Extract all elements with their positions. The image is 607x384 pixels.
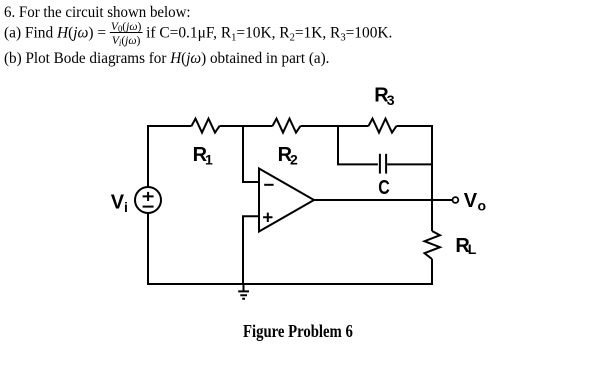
- svg-text:1: 1: [205, 152, 213, 168]
- op-amp plus sign: [263, 213, 272, 222]
- wire: capacitor right plate to right rail: [387, 163, 432, 165]
- svg-text:2: 2: [290, 152, 298, 168]
- wire: RL bottom to bottom rail corner: [148, 213, 432, 284]
- wire: top rail between R1 and R2 (through node J1): [220, 125, 273, 127]
- svg-text:i: i: [124, 199, 128, 215]
- terminal Vo (open circle): [453, 197, 459, 203]
- source Vi minus sign: [143, 206, 154, 208]
- wire: top rail from R3 to right rail corner: [397, 126, 433, 199]
- op-amp minus sign: [264, 184, 273, 186]
- ground: [238, 284, 249, 299]
- resistor R3: [369, 119, 397, 133]
- svg-text:C: C: [378, 177, 390, 199]
- problem text line (b): [4, 51, 329, 67]
- wire: op-amp non-inverting input from ground rail: [243, 216, 259, 284]
- wire: top rail left segment from source top corner to R1: [148, 126, 192, 187]
- resistor RL (vertical): [425, 231, 441, 259]
- wire: top rail between R2 and R3 (through node J2): [301, 125, 369, 127]
- wire: right rail from output node down to RL: [431, 199, 433, 231]
- wire: op-amp output to Vo terminal: [314, 199, 453, 201]
- svg-text:V: V: [111, 192, 125, 214]
- problem text line 1: [4, 5, 191, 21]
- figure caption: [243, 322, 353, 340]
- svg-text:V: V: [464, 190, 478, 212]
- svg-text:L: L: [468, 241, 477, 257]
- resistor R2: [273, 119, 301, 133]
- svg-text:o: o: [478, 197, 487, 213]
- wire: node J1 down to op-amp inverting input: [243, 126, 259, 182]
- capacitor C right plate: [385, 154, 387, 174]
- capacitor C left plate: [379, 154, 381, 174]
- op-amp U1 triangle: [259, 169, 314, 232]
- resistor R1: [192, 119, 220, 133]
- problem text line (a) with fraction: [4, 21, 392, 45]
- svg-text:3: 3: [387, 92, 395, 108]
- wire: node J2 down to capacitor branch: [338, 126, 378, 164]
- source Vi plus sign: [143, 192, 154, 201]
- source Vi circle: [135, 187, 161, 213]
